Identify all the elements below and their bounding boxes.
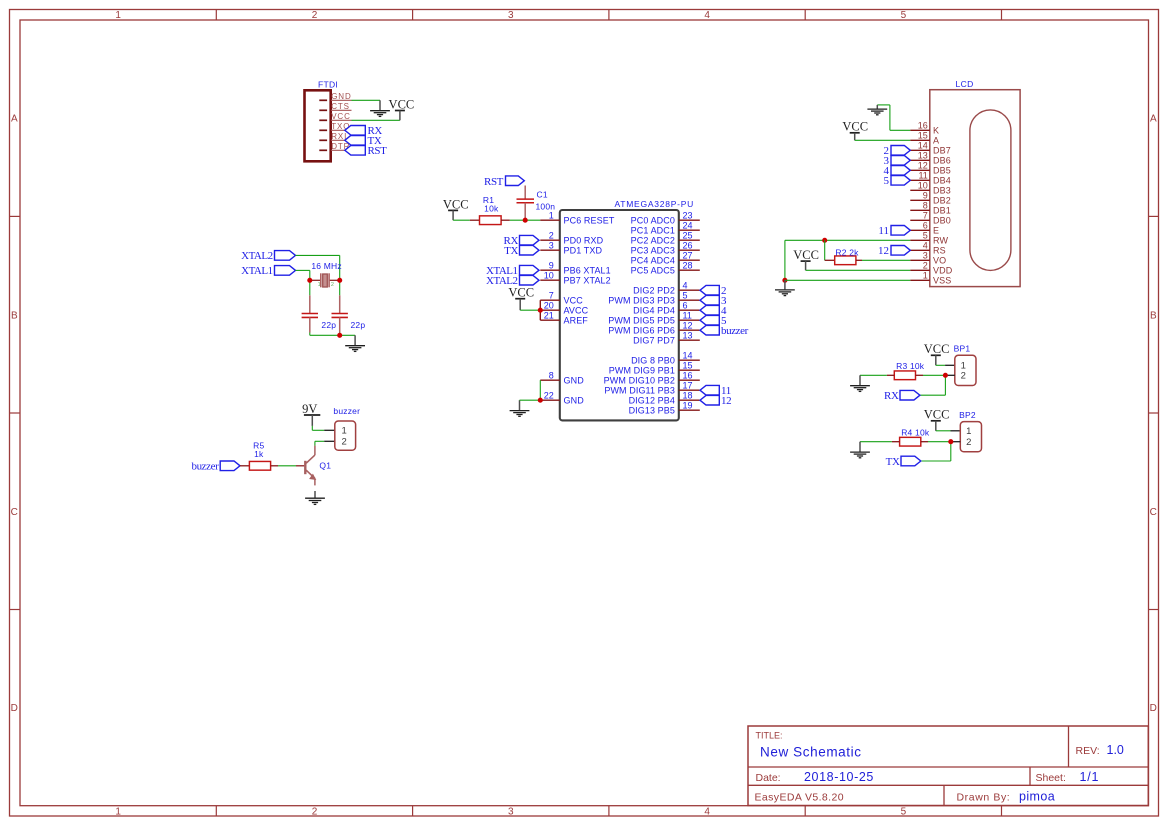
svg-text:22: 22 [544, 390, 554, 400]
svg-text:B: B [1150, 310, 1157, 321]
svg-text:VCC: VCC [331, 112, 351, 121]
svg-text:PWM DIG5 PD5: PWM DIG5 PD5 [608, 315, 675, 325]
svg-text:PC4 ADC4: PC4 ADC4 [631, 255, 675, 265]
svg-text:12: 12 [878, 245, 889, 257]
svg-text:12: 12 [721, 395, 731, 407]
svg-text:8: 8 [923, 201, 928, 211]
svg-text:TX: TX [504, 245, 518, 257]
svg-text:VCC: VCC [924, 342, 950, 356]
svg-text:XTAL1: XTAL1 [241, 265, 272, 277]
svg-text:VDD: VDD [933, 266, 953, 276]
svg-text:5: 5 [884, 175, 890, 187]
svg-text:16: 16 [918, 121, 928, 131]
svg-text:RX: RX [884, 390, 899, 402]
svg-text:DB1: DB1 [933, 206, 951, 216]
svg-text:A: A [11, 114, 18, 125]
svg-text:4: 4 [923, 241, 928, 251]
svg-text:6: 6 [923, 221, 928, 231]
svg-text:TITLE:: TITLE: [756, 731, 783, 741]
svg-text:PD0 RXD: PD0 RXD [564, 235, 604, 245]
svg-text:AREF: AREF [564, 315, 589, 325]
svg-text:K: K [933, 126, 939, 136]
svg-text:12: 12 [683, 320, 693, 330]
svg-text:4: 4 [704, 807, 710, 818]
svg-text:1: 1 [115, 807, 121, 818]
svg-text:D: D [1150, 703, 1157, 714]
svg-text:RS: RS [933, 246, 946, 256]
svg-text:REV:: REV: [1076, 745, 1100, 757]
svg-text:Sheet:: Sheet: [1036, 772, 1066, 784]
svg-text:VO: VO [933, 256, 946, 266]
svg-text:7: 7 [549, 290, 554, 300]
svg-text:5: 5 [901, 10, 907, 21]
svg-text:1: 1 [549, 210, 554, 220]
svg-text:BP1: BP1 [954, 344, 971, 354]
svg-text:2: 2 [331, 282, 334, 288]
svg-text:TX: TX [886, 456, 900, 468]
svg-text:PC1 ADC1: PC1 ADC1 [631, 225, 675, 235]
svg-text:RST: RST [368, 145, 388, 157]
svg-text:5: 5 [923, 231, 928, 241]
svg-text:buzzer: buzzer [333, 406, 360, 416]
svg-text:C1: C1 [537, 190, 548, 200]
svg-text:PWM DIG10 PB2: PWM DIG10 PB2 [604, 375, 675, 385]
svg-text:11: 11 [683, 310, 692, 320]
svg-text:VCC: VCC [793, 248, 819, 262]
svg-text:13: 13 [683, 330, 693, 340]
svg-text:2: 2 [549, 230, 554, 240]
svg-text:VCC: VCC [924, 408, 950, 422]
svg-text:DB3: DB3 [933, 186, 951, 196]
svg-text:1k: 1k [254, 449, 264, 459]
svg-text:4: 4 [704, 10, 710, 21]
svg-text:buzzer: buzzer [721, 325, 749, 337]
svg-text:4: 4 [683, 280, 688, 290]
svg-text:5: 5 [901, 807, 907, 818]
svg-text:9V: 9V [302, 402, 317, 416]
svg-text:PC3 ADC3: PC3 ADC3 [631, 245, 675, 255]
svg-text:DB4: DB4 [933, 176, 951, 186]
svg-text:6: 6 [683, 300, 688, 310]
svg-text:19: 19 [683, 400, 693, 410]
svg-text:RW: RW [933, 236, 948, 246]
svg-text:buzzer: buzzer [191, 461, 219, 473]
svg-text:DB6: DB6 [933, 156, 951, 166]
svg-text:DB5: DB5 [933, 166, 951, 176]
svg-text:2: 2 [923, 261, 928, 271]
svg-text:GND: GND [564, 395, 585, 405]
svg-text:DIG4 PD4: DIG4 PD4 [633, 305, 675, 315]
svg-text:2: 2 [961, 371, 966, 382]
svg-text:9: 9 [923, 191, 928, 201]
svg-text:23: 23 [683, 210, 693, 220]
svg-text:PWM DIG6 PD6: PWM DIG6 PD6 [608, 325, 675, 335]
svg-text:Date:: Date: [756, 772, 781, 784]
svg-text:8: 8 [549, 370, 554, 380]
svg-text:E: E [933, 226, 939, 236]
svg-text:DIG 8 PB0: DIG 8 PB0 [631, 355, 675, 365]
svg-text:VCC: VCC [842, 120, 868, 134]
svg-text:15: 15 [918, 131, 928, 141]
svg-text:1: 1 [318, 282, 321, 288]
svg-text:A: A [933, 136, 939, 146]
svg-text:B: B [11, 310, 18, 321]
svg-text:PC2 ADC2: PC2 ADC2 [631, 235, 675, 245]
svg-text:1: 1 [966, 426, 971, 437]
svg-text:1: 1 [115, 10, 121, 21]
svg-text:PC0 ADC0: PC0 ADC0 [631, 215, 675, 225]
svg-text:12: 12 [918, 161, 928, 171]
svg-text:11: 11 [918, 171, 927, 181]
svg-text:3: 3 [923, 251, 928, 261]
svg-text:Drawn By:: Drawn By: [957, 792, 1011, 804]
svg-text:VCC: VCC [508, 286, 534, 300]
svg-text:14: 14 [918, 141, 928, 151]
svg-text:16 MHz: 16 MHz [311, 261, 342, 271]
svg-text:R4 10k: R4 10k [901, 428, 930, 438]
svg-text:Q1: Q1 [319, 460, 331, 470]
svg-text:1.0: 1.0 [1107, 743, 1124, 757]
svg-text:2: 2 [966, 437, 971, 448]
svg-text:C: C [1150, 507, 1157, 518]
svg-text:5: 5 [683, 290, 688, 300]
svg-text:3: 3 [508, 10, 514, 21]
svg-text:PB6 XTAL1: PB6 XTAL1 [564, 265, 611, 275]
svg-text:10: 10 [918, 181, 928, 191]
svg-text:New Schematic: New Schematic [760, 745, 862, 760]
svg-text:10: 10 [544, 270, 554, 280]
svg-text:PB7 XTAL2: PB7 XTAL2 [564, 275, 611, 285]
svg-text:PWM DIG11 PB3: PWM DIG11 PB3 [604, 385, 675, 395]
svg-text:XTAL2: XTAL2 [241, 250, 272, 262]
svg-text:10k: 10k [484, 203, 499, 213]
svg-text:VSS: VSS [933, 276, 951, 286]
svg-text:DIG2 PD2: DIG2 PD2 [633, 285, 675, 295]
svg-text:pimoa: pimoa [1019, 790, 1055, 804]
svg-text:DB2: DB2 [933, 196, 951, 206]
svg-text:PWM DIG9 PB1: PWM DIG9 PB1 [609, 365, 675, 375]
svg-text:7: 7 [923, 211, 928, 221]
svg-text:24: 24 [683, 220, 693, 230]
svg-text:27: 27 [683, 250, 693, 260]
svg-text:GND: GND [564, 375, 585, 385]
svg-text:17: 17 [683, 380, 693, 390]
svg-text:GND: GND [331, 92, 351, 101]
svg-text:1: 1 [923, 271, 928, 281]
svg-text:25: 25 [683, 230, 693, 240]
svg-text:DIG7 PD7: DIG7 PD7 [633, 335, 675, 345]
svg-text:9: 9 [549, 260, 554, 270]
svg-text:2: 2 [312, 10, 318, 21]
svg-text:15: 15 [683, 360, 693, 370]
svg-text:22p: 22p [321, 320, 336, 330]
svg-text:DIG13 PB5: DIG13 PB5 [629, 405, 675, 415]
svg-text:DB0: DB0 [933, 216, 951, 226]
svg-text:R3 10k: R3 10k [896, 361, 925, 371]
svg-text:LCD: LCD [956, 79, 974, 89]
svg-text:RST: RST [484, 176, 504, 188]
svg-text:ATMEGA328P-PU: ATMEGA328P-PU [615, 199, 695, 209]
svg-text:20: 20 [544, 300, 554, 310]
svg-text:FTDI: FTDI [318, 80, 338, 90]
svg-text:PD1 TXD: PD1 TXD [564, 245, 603, 255]
svg-text:14: 14 [683, 350, 693, 360]
svg-text:13: 13 [918, 151, 928, 161]
svg-text:2018-10-25: 2018-10-25 [804, 770, 874, 784]
svg-text:PC5 ADC5: PC5 ADC5 [631, 265, 675, 275]
svg-text:PWM DIG3 PD3: PWM DIG3 PD3 [608, 295, 675, 305]
svg-text:BP2: BP2 [959, 410, 976, 420]
svg-text:C: C [11, 507, 18, 518]
svg-text:18: 18 [683, 390, 693, 400]
svg-text:1: 1 [342, 425, 347, 436]
svg-text:28: 28 [683, 260, 693, 270]
svg-text:3: 3 [549, 240, 554, 250]
svg-text:2: 2 [342, 436, 347, 447]
svg-text:DIG12 PB4: DIG12 PB4 [629, 395, 675, 405]
svg-text:16: 16 [683, 370, 693, 380]
svg-text:PC6 RESET: PC6 RESET [564, 215, 615, 225]
svg-text:CTS: CTS [331, 102, 350, 111]
svg-text:DB7: DB7 [933, 146, 951, 156]
svg-text:AVCC: AVCC [564, 305, 589, 315]
svg-text:26: 26 [683, 240, 693, 250]
svg-text:VCC: VCC [443, 197, 469, 211]
svg-text:VCC: VCC [564, 295, 584, 305]
svg-text:2: 2 [312, 807, 318, 818]
svg-text:D: D [11, 703, 18, 714]
svg-text:EasyEDA V5.8.20: EasyEDA V5.8.20 [755, 792, 844, 804]
svg-text:22p: 22p [351, 320, 366, 330]
svg-text:VCC: VCC [389, 97, 415, 111]
svg-text:11: 11 [878, 225, 889, 237]
svg-text:A: A [1150, 114, 1157, 125]
svg-text:R2 2k: R2 2k [835, 247, 859, 257]
svg-text:3: 3 [508, 807, 514, 818]
svg-text:1/1: 1/1 [1080, 770, 1100, 784]
svg-text:21: 21 [544, 310, 554, 320]
